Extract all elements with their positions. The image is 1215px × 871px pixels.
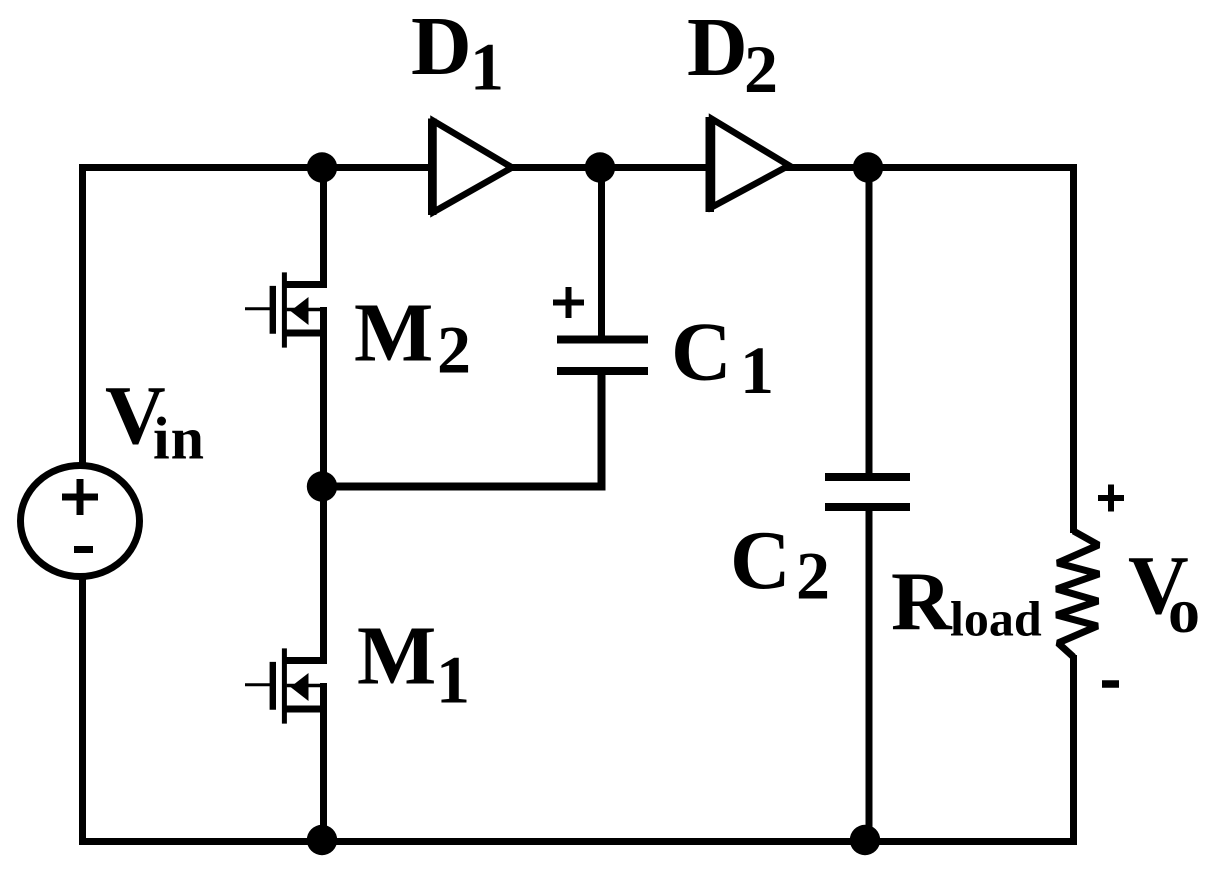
wire M2 drain lead from top wire	[320, 168, 327, 289]
M2 body arrow	[291, 297, 309, 325]
capacitor C1 bottom plate	[557, 367, 648, 375]
resistor Rload zigzag	[1057, 531, 1100, 657]
svg-text:1: 1	[436, 642, 470, 718]
wire right vertical upper (node to Rload)	[1070, 164, 1077, 533]
M1 drain bar	[284, 657, 326, 664]
M1 channel bar	[282, 648, 287, 723]
wire C2 top lead	[866, 168, 873, 479]
diode D1 triangle	[434, 121, 513, 212]
capacitor C1 top plate	[557, 336, 648, 344]
node junction dot top M2	[307, 152, 337, 182]
diode D2 bar	[706, 117, 715, 212]
voltage source Vin circle	[21, 466, 140, 577]
svg-text:D: D	[411, 0, 472, 93]
capacitor C2 top plate	[825, 473, 910, 481]
M2 channel bar	[282, 272, 287, 347]
svg-text:C: C	[730, 514, 791, 607]
svg-text:load: load	[950, 591, 1042, 647]
transistor M2	[245, 272, 327, 347]
svg-text:M: M	[354, 287, 433, 380]
wire M1 source lead to bottom wire	[320, 683, 327, 842]
M2 drain bar	[284, 281, 326, 288]
svg-text:1: 1	[470, 29, 504, 105]
M2 gate lead	[245, 307, 270, 310]
wire left vertical (Vin branch lower)	[79, 578, 86, 845]
M1 gate bar	[270, 662, 276, 710]
svg-text:o: o	[1168, 575, 1200, 646]
label Vo minus sign	[1102, 680, 1119, 688]
wire left vertical (Vin branch upper)	[79, 164, 86, 464]
wire mid horizontal (M2 source node to C1 bottom)	[322, 373, 602, 487]
transistor M1	[245, 648, 327, 723]
svg-text:1: 1	[740, 332, 774, 408]
M2 gate bar	[270, 286, 276, 334]
node junction dot top after D2	[853, 152, 883, 182]
node junction dot bottom M1	[307, 825, 337, 855]
label Vo plus sign	[1098, 485, 1124, 512]
node junction dot top after D1	[585, 152, 615, 182]
diode D2 triangle	[712, 119, 789, 207]
capacitor C2 bottom plate	[825, 503, 910, 511]
wire bottom horizontal net	[79, 838, 1077, 845]
diode D1 bar	[428, 119, 437, 216]
wire C1 top lead	[598, 168, 605, 342]
wire top horizontal net	[79, 164, 1077, 171]
M1 body bar	[287, 684, 327, 688]
voltage source Vin minus sign	[74, 546, 93, 553]
wire C2 bottom lead	[866, 506, 873, 842]
svg-text:2: 2	[437, 312, 471, 388]
capacitor C1 polarity plus	[553, 287, 584, 318]
voltage source Vin plus sign	[62, 479, 98, 515]
svg-text:C: C	[671, 306, 732, 399]
M1 gate lead	[245, 683, 270, 686]
svg-text:R: R	[891, 556, 953, 649]
M2 source bar	[284, 330, 326, 337]
svg-text:2: 2	[744, 31, 778, 107]
wire right vertical lower (Rload to bottom)	[1070, 655, 1077, 845]
node junction dot bottom C2	[850, 825, 880, 855]
M2 body bar	[287, 308, 327, 312]
svg-text:2: 2	[796, 538, 830, 614]
svg-text:D: D	[687, 1, 748, 94]
M1 source bar	[284, 706, 326, 713]
node junction dot mid (M1/M2/C1)	[307, 471, 337, 501]
svg-text:in: in	[153, 406, 205, 472]
wire M2 source lead to mid node	[320, 307, 327, 487]
svg-text:M: M	[357, 610, 436, 703]
wire M1 drain lead from mid node	[320, 487, 327, 664]
M1 body arrow	[291, 673, 309, 701]
